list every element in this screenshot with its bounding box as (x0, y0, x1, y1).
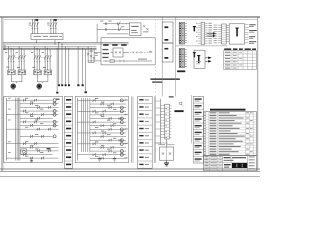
wire P2 left rail (76, 98, 78, 161)
connector CN1 (196, 22, 212, 44)
wire divider x162 (161, 17, 163, 96)
wire left frame border (1, 17, 3, 171)
signal arrow 3 (205, 57, 212, 60)
wire bus L21 (3, 47, 97, 49)
signal arrow 1 (207, 32, 217, 35)
wire P1 left rail (5, 98, 7, 161)
node CP circle (179, 102, 183, 106)
wire drop QF2 to bus (54, 40, 56, 44)
terminal list strip 1 (65, 96, 73, 168)
transformer TC box (113, 48, 123, 57)
label cabinet left column (102, 49, 109, 58)
ladder rungs panel 1 (6, 98, 58, 160)
label CN3 top (169, 96, 174, 97)
wire contactor link dashed (9, 56, 25, 58)
signal arrow 2 (207, 35, 217, 38)
wire sheet bottom border (0, 170, 260, 172)
wire divider x175 (175, 17, 177, 96)
equipment material table title (210, 109, 246, 111)
thermal overload FR3 (34, 70, 42, 75)
wire control line 2 (97, 27, 129, 31)
contactor KM2 poles (18, 47, 25, 70)
wire section divider lower double (154, 96, 155, 163)
caption line drawing note 2 (152, 81, 162, 82)
contactor KM4 poles (44, 47, 51, 70)
label relay box notes (196, 61, 201, 64)
wire FR3 to motor 2 (37, 75, 48, 83)
feeder group 1 (5, 47, 26, 90)
ground symbol P2 b (113, 157, 117, 162)
title block (204, 156, 257, 171)
label FR1 (6, 66, 9, 69)
contactor KM3 poles (34, 47, 41, 70)
motor M2 (37, 84, 42, 90)
wire outgoing feeder 5 (77, 47, 83, 86)
wire control line 3 (107, 33, 129, 35)
terminal assignment table (224, 48, 257, 69)
control panel box 1 (4, 96, 63, 162)
wire bus L1 (3, 41, 129, 43)
wire CP bus (160, 99, 162, 145)
title block drawing name stamp (224, 163, 247, 168)
label FR4 (43, 66, 46, 69)
label contactor row (103, 44, 126, 46)
label column header 1 (193, 26, 196, 31)
label KM3 (31, 51, 33, 54)
breaker QF1 (29, 19, 39, 33)
label KM2 (16, 51, 18, 54)
contactor KM1 poles (8, 47, 15, 70)
wire P2 vertical bundle (82, 98, 90, 152)
control panel box 2 (75, 96, 128, 162)
label P1 top right (56, 99, 59, 100)
fuse FU3 (93, 50, 95, 63)
wire P1 vertical bus bundle (16, 98, 20, 161)
wire bus L31 (3, 49, 97, 51)
wire control tap (56, 48, 58, 93)
wire CN3 down (166, 139, 168, 147)
title block right cells (249, 156, 255, 169)
fuse box FU4 (160, 147, 174, 160)
wire CP bottom line (156, 142, 169, 144)
junction box label 1214-Hak-0787 (31, 34, 63, 40)
timer box KT1 (21, 149, 27, 154)
label XT2 tag (177, 70, 185, 72)
motor M1 (11, 84, 16, 90)
ground symbol P2 a (98, 157, 102, 162)
signal arrow 4 (205, 60, 212, 63)
controller output pins (245, 24, 257, 44)
thermal overload FR4 (44, 70, 52, 75)
wire frame inner bottom border (0, 168, 260, 170)
label CN3 designation (174, 110, 183, 112)
ground symbol main (164, 160, 169, 166)
label control line tags (100, 21, 124, 28)
wire outgoing feeder 4 (65, 47, 70, 86)
label KM4 (42, 51, 44, 54)
wire control feed vertical (96, 24, 98, 43)
ground symbol P1 (30, 158, 33, 162)
caption line drawing note 1 (150, 78, 180, 80)
fuse FU2 (90, 48, 92, 62)
breaker QF2 (47, 19, 57, 33)
connector CN2 (214, 24, 227, 44)
wire right frame border (257, 17, 259, 171)
wire drop QF1 to bus (36, 40, 38, 43)
terminal list strip 3 (193, 96, 203, 163)
wire bus L11 (3, 46, 97, 48)
wire sheet lower edge line (0, 175, 260, 177)
label KM1 (5, 51, 7, 54)
label FR3 (32, 66, 35, 69)
relay box KA2 (194, 50, 205, 68)
label FR2 (17, 66, 20, 69)
wire control line 1 (103, 21, 130, 29)
wire sheet top border (0, 16, 260, 18)
feeder group 2 (31, 47, 52, 90)
wire section divider dashed (154, 19, 156, 96)
wire cabinet internal 1 (111, 51, 153, 53)
wire frame inner top border (4, 18, 257, 20)
wire fuse to control box (88, 53, 101, 63)
label under CP (159, 143, 175, 146)
ladder rungs panel 2 (77, 98, 127, 160)
equipment material table (204, 112, 257, 156)
terminal list strip 2 (138, 96, 153, 168)
thermal overload FR1 (8, 70, 16, 75)
wire contactor link dashed 2 (35, 56, 51, 58)
connector CN3 (161, 104, 172, 139)
wire outgoing feeder 3 (58, 42, 63, 86)
node bus junctions (8, 42, 94, 50)
thermal overload FR2 (18, 70, 26, 75)
wire middle divider double (131, 96, 133, 163)
label column header 2 (193, 52, 196, 57)
label P1 bottom right (47, 148, 51, 149)
equipment box list (162, 22, 173, 62)
relay box KA (130, 23, 142, 35)
wire shelf line (176, 45, 227, 47)
wire S3 border (191, 95, 193, 143)
fuse FU1 (87, 47, 89, 63)
wire bus L2 (3, 43, 129, 45)
auxiliary contacts right of KA (143, 25, 148, 32)
label FU cluster (90, 51, 98, 56)
wire cabinet internal 2 (103, 59, 152, 63)
wire CP stub rungs (156, 101, 161, 143)
controller box U1 (226, 24, 245, 44)
wire transformer primary (85, 50, 87, 94)
terminal strip XT2 (179, 49, 187, 68)
control cabinet box AC1 (101, 38, 155, 65)
terminal strip XT1 (179, 23, 187, 45)
bus phase labels (4, 45, 6, 49)
wire FR1 to motor (11, 75, 22, 83)
